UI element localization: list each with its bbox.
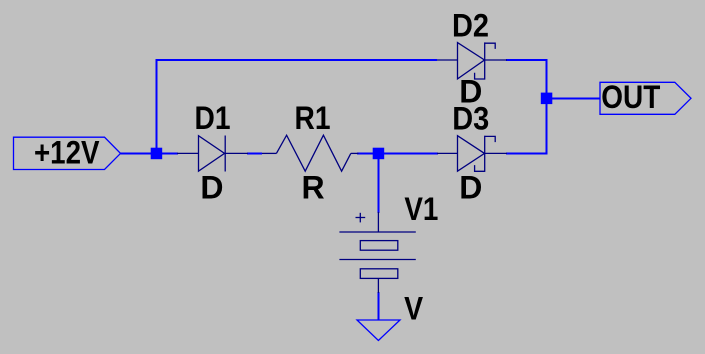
- port OUT tag: [600, 82, 691, 114]
- label OUT: [601, 79, 660, 115]
- label D (D3 value): [459, 170, 482, 206]
- node A junction square: [151, 148, 163, 160]
- node C junction square: [541, 93, 553, 105]
- label R (R1 value): [302, 170, 325, 206]
- wire right rail vertical: [546, 59, 548, 154]
- label D (D2 value): [459, 73, 482, 109]
- battery V1: [339, 212, 415, 293]
- wire node A up to top rail: [155, 59, 157, 154]
- wire battery V1 to ground: [377, 292, 379, 320]
- svg-text:D3: D3: [452, 100, 489, 136]
- svg-text:V1: V1: [404, 191, 438, 227]
- label V1: [404, 191, 438, 227]
- svg-text:V: V: [404, 290, 424, 326]
- zener diode D2: [437, 42, 507, 79]
- zener diode D3: [437, 136, 507, 172]
- ground: [357, 320, 400, 341]
- wire top rail to D2: [155, 59, 437, 61]
- label D (D1 value): [200, 170, 223, 206]
- svg-text:R1: R1: [295, 100, 331, 136]
- wire D2 to right rail: [506, 59, 548, 61]
- svg-text:OUT: OUT: [601, 79, 660, 115]
- svg-text:D2: D2: [452, 8, 489, 44]
- label R1: [295, 100, 331, 136]
- wire node B to D3: [383, 152, 438, 154]
- svg-text:D: D: [459, 170, 482, 206]
- wire from +12V tag tip to node A: [121, 152, 153, 154]
- label +12V: [34, 135, 100, 171]
- wire D1 to R1: [247, 152, 262, 154]
- diode D1: [177, 136, 248, 172]
- wire D3 to right rail: [506, 152, 546, 154]
- label V (ground net): [404, 290, 424, 326]
- wire node C to OUT tag: [551, 97, 600, 99]
- resistor R1: [262, 135, 359, 171]
- svg-text:D1: D1: [195, 100, 231, 136]
- svg-text:D: D: [200, 170, 223, 206]
- port +12V tag: [14, 137, 121, 169]
- svg-text:+12V: +12V: [34, 135, 100, 171]
- label D2: [452, 8, 489, 44]
- label D1: [195, 100, 231, 136]
- wire R1 to node B: [357, 152, 374, 154]
- node B junction square: [373, 148, 385, 160]
- wire node B down to battery V1: [377, 153, 379, 213]
- label D3: [452, 100, 489, 136]
- wire node A to D1: [161, 152, 178, 154]
- svg-text:R: R: [302, 170, 325, 206]
